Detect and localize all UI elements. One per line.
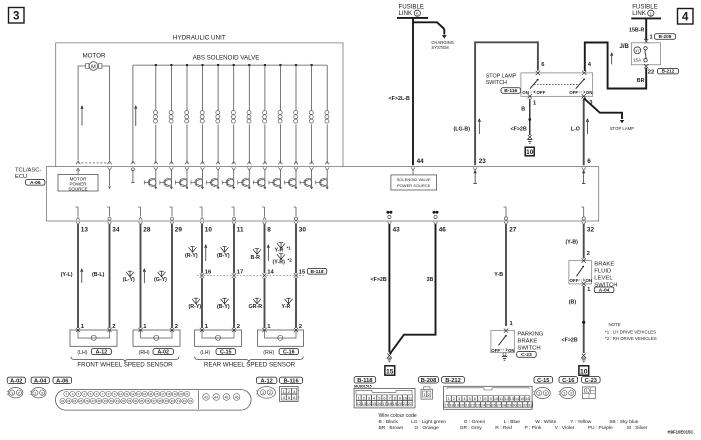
- arrow on wire 10: [205, 247, 207, 262]
- svg-text:24: 24: [481, 403, 485, 407]
- svg-text:Y-R: Y-R: [275, 248, 284, 254]
- connector B-212 terminal 22: [644, 64, 648, 68]
- svg-text:<F>2B: <F>2B: [371, 277, 387, 283]
- wire F2L-B from fusible link to ECU 44: [412, 18, 414, 165]
- svg-text:25: 25: [486, 403, 490, 407]
- rear RH wheel speed sensor C-16: [258, 330, 304, 346]
- wire 34 to front LH sensor (B-L): [109, 224, 111, 328]
- page number box 4: [678, 9, 694, 25]
- svg-text:B-116: B-116: [283, 378, 298, 384]
- wire 28 to front RH sensor (L-Y): [140, 224, 142, 328]
- solenoid valve L7: [248, 64, 250, 66]
- solenoid valve power source: [412, 170, 414, 175]
- svg-text:1: 1: [448, 397, 450, 401]
- svg-text:4: 4: [682, 12, 689, 24]
- internal arrow below terminal 23: [474, 172, 476, 184]
- svg-text:SI : Silver: SI : Silver: [627, 425, 648, 431]
- svg-text:15: 15: [520, 397, 524, 401]
- svg-text:19: 19: [393, 402, 397, 406]
- svg-text:13: 13: [510, 397, 514, 401]
- svg-text:ON: ON: [508, 348, 515, 353]
- svg-text:22: 22: [408, 402, 412, 406]
- svg-text:Y-R: Y-R: [282, 304, 291, 310]
- inline connector B-118: [197, 275, 304, 277]
- svg-text:OFF: OFF: [569, 90, 578, 95]
- svg-text:B : Black: B : Black: [379, 419, 399, 425]
- svg-text:39: 39: [165, 399, 169, 403]
- connector icon A-02: [7, 377, 25, 383]
- svg-text:25: 25: [79, 399, 83, 403]
- wire Y-B from 32: [583, 224, 585, 259]
- svg-text:22: 22: [61, 399, 65, 403]
- svg-text:23: 23: [67, 399, 71, 403]
- connector icon A-12: [256, 377, 277, 383]
- svg-text:22: 22: [470, 403, 474, 407]
- motor return arrow inside ECU: [109, 170, 111, 187]
- svg-text:23: 23: [479, 158, 487, 165]
- svg-text:(B): (B): [569, 299, 577, 305]
- svg-text:SWITCH: SWITCH: [517, 346, 540, 352]
- svg-text:NOTE: NOTE: [609, 322, 621, 327]
- svg-text:47: 47: [635, 48, 640, 53]
- solenoid valve L4: [201, 64, 203, 66]
- terminal chevron supply riser: [131, 161, 135, 164]
- svg-text:29: 29: [507, 403, 511, 407]
- svg-text:22: 22: [648, 69, 654, 75]
- svg-text:H9F10E015C: H9F10E015C: [668, 429, 694, 434]
- svg-text:9: 9: [399, 396, 401, 400]
- svg-text:STOP LAMP: STOP LAMP: [486, 74, 517, 80]
- svg-text:L-O: L-O: [571, 127, 580, 133]
- solenoid valve L8: [264, 64, 266, 66]
- wire motor right lead: [102, 66, 110, 161]
- wire 30 to rear RH sensor Y-R: [295, 224, 297, 273]
- svg-text:13: 13: [81, 226, 89, 233]
- svg-text:34: 34: [134, 399, 138, 403]
- connector icon B-212: [442, 377, 465, 383]
- brace rear sensors: [195, 357, 304, 363]
- svg-text:10: 10: [205, 226, 213, 233]
- wire 8 to rear RH sensor B-R: [264, 224, 266, 273]
- svg-text:B-208: B-208: [421, 378, 437, 384]
- svg-text:C-16: C-16: [283, 349, 295, 355]
- svg-text:8: 8: [267, 226, 271, 233]
- transistor driver Q6: [233, 170, 235, 179]
- svg-text:21: 21: [185, 392, 189, 396]
- svg-text:ON: ON: [522, 90, 529, 95]
- ground body 10: [528, 135, 532, 139]
- svg-text:(Y-R): (Y-R): [273, 260, 286, 266]
- svg-text:10: 10: [403, 396, 407, 400]
- mechanical link dashed: [534, 83, 579, 85]
- svg-text:18: 18: [449, 403, 453, 407]
- ECU terminal 29: [171, 207, 173, 217]
- connector A-06 ref: [26, 180, 45, 186]
- wire 13 to front LH sensor (Y-L): [77, 224, 79, 328]
- svg-text:34: 34: [112, 226, 120, 233]
- switch blade: [499, 335, 507, 345]
- svg-text:(LG-B): (LG-B): [454, 127, 471, 133]
- wire B from switch 1 to ground: [529, 99, 531, 135]
- svg-text:Wire colour code: Wire colour code: [379, 413, 417, 419]
- svg-text:C-23: C-23: [585, 378, 597, 384]
- svg-text:1: 1: [358, 396, 360, 400]
- transistor driver Q11: [311, 170, 313, 179]
- svg-text:(L-Y): (L-Y): [123, 277, 135, 283]
- svg-text:14: 14: [367, 402, 371, 406]
- svg-text:5: 5: [378, 396, 380, 400]
- svg-text:12: 12: [357, 402, 361, 406]
- svg-text:MOTOR: MOTOR: [83, 53, 106, 60]
- svg-text:OFF: OFF: [570, 278, 579, 283]
- svg-text:2: 2: [363, 396, 365, 400]
- svg-text:5: 5: [469, 397, 471, 401]
- svg-text:46: 46: [439, 226, 447, 233]
- ECU terminal 32: [583, 207, 585, 217]
- svg-text:8: 8: [394, 396, 396, 400]
- ECU top edge terminals (hydraulic side): [108, 167, 112, 170]
- svg-text:17: 17: [237, 270, 243, 276]
- svg-text:(RH): (RH): [139, 350, 150, 356]
- transistor driver Q9: [279, 170, 281, 179]
- svg-text:A-02: A-02: [10, 378, 22, 384]
- svg-text:35: 35: [140, 399, 144, 403]
- svg-text:15: 15: [372, 402, 376, 406]
- internal arrow below terminal 6: [583, 172, 585, 184]
- ground body 15: [387, 354, 391, 358]
- svg-text:B-212: B-212: [445, 378, 461, 384]
- svg-text:FRONT WHEEL SPEED SENSOR: FRONT WHEEL SPEED SENSOR: [77, 361, 173, 368]
- wire stop lamp feed: [584, 98, 622, 119]
- svg-text:27: 27: [509, 226, 517, 233]
- transistor driver Q8: [264, 170, 266, 179]
- wire LG-B from ECU 23 to switch 6: [475, 42, 538, 165]
- svg-text:30: 30: [110, 399, 114, 403]
- svg-text:7: 7: [388, 396, 390, 400]
- svg-text:<F>2B: <F>2B: [562, 338, 578, 344]
- svg-text:43: 43: [204, 395, 208, 399]
- wire 3B from 46: [390, 224, 436, 354]
- front RH wheel speed sensor A-02: [133, 330, 180, 346]
- svg-text:REAR WHEEL SPEED SENSOR: REAR WHEEL SPEED SENSOR: [204, 361, 296, 368]
- svg-text:Y : Yellow: Y : Yellow: [570, 419, 592, 425]
- svg-text:PU : Purple: PU : Purple: [588, 425, 613, 431]
- svg-text:2: 2: [112, 324, 115, 330]
- svg-text:23: 23: [476, 403, 480, 407]
- svg-text:14: 14: [143, 392, 147, 396]
- svg-text:*1: *1: [287, 246, 292, 251]
- ECU terminal 28: [140, 207, 142, 217]
- ECU terminal 6: [582, 167, 586, 170]
- svg-text:41: 41: [177, 399, 181, 403]
- svg-text:(LH): (LH): [77, 350, 87, 356]
- svg-text:31: 31: [116, 399, 120, 403]
- svg-text:(Y-B): (Y-B): [566, 240, 579, 246]
- svg-text:LINK: LINK: [399, 10, 413, 17]
- svg-text:10: 10: [526, 149, 534, 156]
- svg-text:SOURCE: SOURCE: [68, 186, 87, 191]
- ECU terminal 44: [411, 167, 415, 170]
- svg-text:B-118: B-118: [357, 378, 372, 384]
- svg-text:*2: *2: [288, 258, 293, 263]
- ECU terminal 27: [505, 207, 507, 217]
- svg-text:B-208: B-208: [659, 34, 672, 39]
- transistor driver Q3: [186, 170, 188, 179]
- svg-text:2: 2: [587, 251, 590, 257]
- fuse 47 15A: [644, 47, 647, 50]
- solenoid valve L1: [155, 64, 157, 66]
- svg-text:20: 20: [179, 392, 183, 396]
- svg-text:C-16: C-16: [562, 378, 574, 384]
- svg-text:15: 15: [299, 270, 306, 276]
- front LH wheel speed sensor A-12: [70, 330, 117, 346]
- svg-text:BRAKE: BRAKE: [594, 261, 614, 267]
- switch blade: [576, 266, 583, 276]
- solenoid valve L5: [217, 64, 219, 66]
- svg-text:SYSTEM: SYSTEM: [431, 45, 449, 50]
- rear LH wheel speed sensor C-15: [195, 330, 242, 346]
- svg-text:28: 28: [143, 226, 151, 233]
- svg-text:26: 26: [85, 399, 89, 403]
- svg-text:<F>2L-B: <F>2L-B: [389, 96, 410, 102]
- svg-text:15A: 15A: [633, 57, 642, 62]
- ECU terminal 34: [109, 207, 111, 217]
- svg-text:16: 16: [155, 392, 159, 396]
- svg-text:43: 43: [393, 226, 401, 233]
- svg-text:OFF: OFF: [491, 348, 500, 353]
- solenoid valve L3: [186, 64, 188, 66]
- svg-text:33: 33: [528, 403, 532, 407]
- svg-text:13: 13: [362, 402, 366, 406]
- svg-text:A-06: A-06: [30, 180, 41, 186]
- ECU terminal 43: [386, 211, 389, 214]
- svg-text:LG : Light green: LG : Light green: [411, 419, 446, 425]
- svg-text:1: 1: [586, 389, 588, 393]
- svg-text:POWER SOURCE: POWER SOURCE: [397, 183, 431, 188]
- svg-text:30: 30: [299, 226, 307, 233]
- solenoid valve L9: [279, 64, 281, 66]
- wire motor left lead: [78, 66, 86, 161]
- svg-text:4: 4: [373, 396, 375, 400]
- connector icon A-04: [31, 377, 49, 383]
- svg-text:(RH): (RH): [263, 350, 274, 356]
- arrow on wire 13: [81, 271, 83, 284]
- svg-text:19: 19: [455, 403, 459, 407]
- transistor driver Q4: [202, 170, 204, 179]
- svg-text:B: B: [521, 106, 525, 112]
- svg-text:32: 32: [523, 403, 527, 407]
- arrow on L-O wire: [587, 121, 589, 135]
- connector icon C-23: [582, 377, 601, 383]
- svg-text:ECU: ECU: [15, 174, 27, 180]
- svg-text:*2 : RH DRIVE VEHICLES: *2 : RH DRIVE VEHICLES: [605, 336, 657, 341]
- wire 29 to front RH sensor (G-Y): [171, 224, 173, 328]
- svg-text:G : Green: G : Green: [464, 419, 486, 425]
- svg-text:29: 29: [104, 399, 108, 403]
- wire L-O from switch 3 to ECU 6: [583, 99, 585, 166]
- svg-text:(B-Y): (B-Y): [217, 253, 230, 259]
- svg-text:18: 18: [167, 392, 171, 396]
- svg-text:11: 11: [125, 392, 128, 396]
- svg-text:(G-Y): (G-Y): [154, 277, 167, 283]
- transistor driver Q2: [170, 170, 172, 179]
- svg-text:21: 21: [465, 403, 469, 407]
- ECU terminal 11: [233, 207, 235, 217]
- terminal 4: [582, 71, 586, 75]
- terminal 1: [528, 94, 532, 98]
- svg-text:44: 44: [417, 158, 425, 165]
- switch blade left: [530, 79, 538, 88]
- svg-text:(R-Y): (R-Y): [189, 304, 202, 310]
- svg-text:43: 43: [189, 399, 193, 403]
- svg-text:LINK: LINK: [632, 10, 646, 17]
- solenoid valve L12: [326, 65, 328, 110]
- transistor driver Q7: [248, 170, 250, 179]
- svg-text:V : Violet: V : Violet: [555, 425, 575, 431]
- arrow on wire 8: [267, 247, 269, 262]
- svg-text:L : Blue: L : Blue: [504, 419, 521, 425]
- svg-text:7: 7: [479, 397, 481, 401]
- svg-text:17: 17: [161, 392, 165, 396]
- svg-text:HYDRAULIC UNIT: HYDRAULIC UNIT: [173, 35, 226, 42]
- svg-text:28: 28: [502, 403, 506, 407]
- svg-text:R : Red: R : Red: [495, 425, 512, 431]
- svg-text:A-04: A-04: [34, 378, 47, 384]
- svg-text:3: 3: [368, 396, 370, 400]
- svg-text:STOP LAMP: STOP LAMP: [610, 126, 635, 131]
- motor power source: [77, 170, 79, 175]
- connector icon C-16: [559, 377, 578, 383]
- svg-text:46: 46: [235, 395, 239, 399]
- brace front sensors: [71, 357, 179, 363]
- svg-text:B-116: B-116: [504, 88, 517, 94]
- svg-text:16: 16: [205, 270, 212, 276]
- svg-text:*1 : LH DRIVE VEHICLES: *1 : LH DRIVE VEHICLES: [605, 329, 656, 334]
- svg-text:16: 16: [525, 397, 529, 401]
- svg-text:21: 21: [403, 402, 407, 406]
- wire F2B from 43: [388, 224, 390, 353]
- ECU terminal 30: [295, 207, 297, 217]
- arrow on BR wire: [611, 55, 613, 65]
- svg-text:26: 26: [491, 403, 495, 407]
- svg-text:12: 12: [504, 397, 508, 401]
- svg-text:6: 6: [383, 396, 385, 400]
- connector icon C-15: [534, 377, 553, 383]
- svg-text:3B: 3B: [427, 277, 434, 283]
- svg-text:11: 11: [408, 396, 412, 400]
- ECU terminal 13: [77, 207, 79, 217]
- svg-text:6: 6: [587, 158, 591, 165]
- svg-text:33: 33: [128, 399, 132, 403]
- svg-text:16: 16: [377, 402, 381, 406]
- wire solenoid supply riser: [132, 65, 134, 163]
- svg-text:ABS SOLENOID VALVE: ABS SOLENOID VALVE: [193, 54, 260, 61]
- svg-text:2: 2: [237, 324, 240, 330]
- wire branch to charging system: [413, 22, 444, 29]
- svg-text:18: 18: [387, 402, 391, 406]
- svg-text:40: 40: [171, 399, 175, 403]
- svg-text:B-R: B-R: [251, 255, 261, 261]
- transistor driver Q10: [295, 170, 297, 179]
- arrow on wire 28: [143, 271, 145, 284]
- svg-text:A-04: A-04: [599, 287, 610, 293]
- ECU enclosure A-06: [46, 167, 598, 222]
- svg-text:(B-Y): (B-Y): [217, 304, 230, 310]
- svg-text:11: 11: [237, 226, 244, 233]
- svg-text:6: 6: [474, 397, 476, 401]
- svg-text:5: 5: [416, 11, 419, 16]
- ground body 10 right: [582, 354, 586, 358]
- svg-text:42: 42: [183, 399, 187, 403]
- terminal chevrons at motor boundary: [76, 161, 80, 164]
- svg-text:OFF: OFF: [537, 90, 546, 95]
- svg-text:19: 19: [173, 392, 177, 396]
- terminal 6: [536, 71, 540, 75]
- solenoid valve L11: [310, 64, 312, 66]
- svg-text:C-15: C-15: [220, 349, 232, 355]
- transistor driver Q12: [326, 170, 328, 179]
- junction block J/B: [631, 43, 660, 65]
- svg-text:SOLENOID VALVE: SOLENOID VALVE: [397, 177, 431, 182]
- svg-text:GR-R: GR-R: [249, 304, 263, 310]
- svg-text:C-23: C-23: [521, 352, 532, 358]
- svg-text:A-12: A-12: [96, 349, 108, 355]
- svg-text:15: 15: [149, 392, 153, 396]
- connector icon B-118: [354, 377, 376, 383]
- connector icon B-208: [419, 377, 439, 383]
- svg-text:ON: ON: [586, 90, 593, 95]
- svg-text:14: 14: [267, 270, 274, 276]
- svg-text:(Y-L): (Y-L): [61, 272, 73, 278]
- svg-text:LEVEL: LEVEL: [594, 275, 613, 281]
- wire 15B-R: [645, 18, 647, 40]
- svg-text:27: 27: [91, 399, 95, 403]
- wire solenoid supply bus: [133, 64, 327, 66]
- svg-text:SWITCH: SWITCH: [486, 80, 507, 86]
- svg-text:J/B: J/B: [620, 44, 630, 50]
- svg-text:3: 3: [458, 397, 460, 401]
- svg-text:32: 32: [122, 399, 126, 403]
- svg-text:13: 13: [137, 392, 141, 396]
- svg-text:29: 29: [175, 226, 183, 233]
- arrow on motor left lead: [81, 108, 83, 126]
- svg-text:C-15: C-15: [537, 378, 549, 384]
- svg-text:MU801515: MU801515: [354, 384, 372, 388]
- svg-text:15B-R: 15B-R: [629, 28, 644, 34]
- svg-text:(B-L): (B-L): [92, 272, 105, 278]
- supply riser termination inside ECU: [132, 170, 134, 183]
- ECU terminal 8: [264, 207, 266, 217]
- svg-text:15: 15: [386, 368, 394, 375]
- svg-text:A-12: A-12: [260, 378, 272, 384]
- svg-text:36: 36: [146, 399, 150, 403]
- arrow on supply riser: [135, 108, 137, 127]
- hydraulic unit enclosure: [56, 43, 343, 167]
- svg-text:2: 2: [453, 397, 455, 401]
- svg-text:SB : Sky blue: SB : Sky blue: [609, 419, 639, 425]
- wire Y-B from 27: [505, 224, 507, 326]
- svg-text:24: 24: [73, 399, 77, 403]
- svg-text:17: 17: [444, 403, 448, 407]
- svg-text:27: 27: [497, 403, 501, 407]
- svg-text:FLUID: FLUID: [594, 268, 611, 274]
- wire B to ground 10: [583, 286, 585, 353]
- svg-text:O : Orange: O : Orange: [415, 425, 439, 431]
- svg-text:3: 3: [13, 11, 19, 23]
- svg-text:(LH): (LH): [200, 350, 210, 356]
- svg-text:B-212: B-212: [662, 69, 675, 74]
- connector icon B-116: [280, 377, 303, 383]
